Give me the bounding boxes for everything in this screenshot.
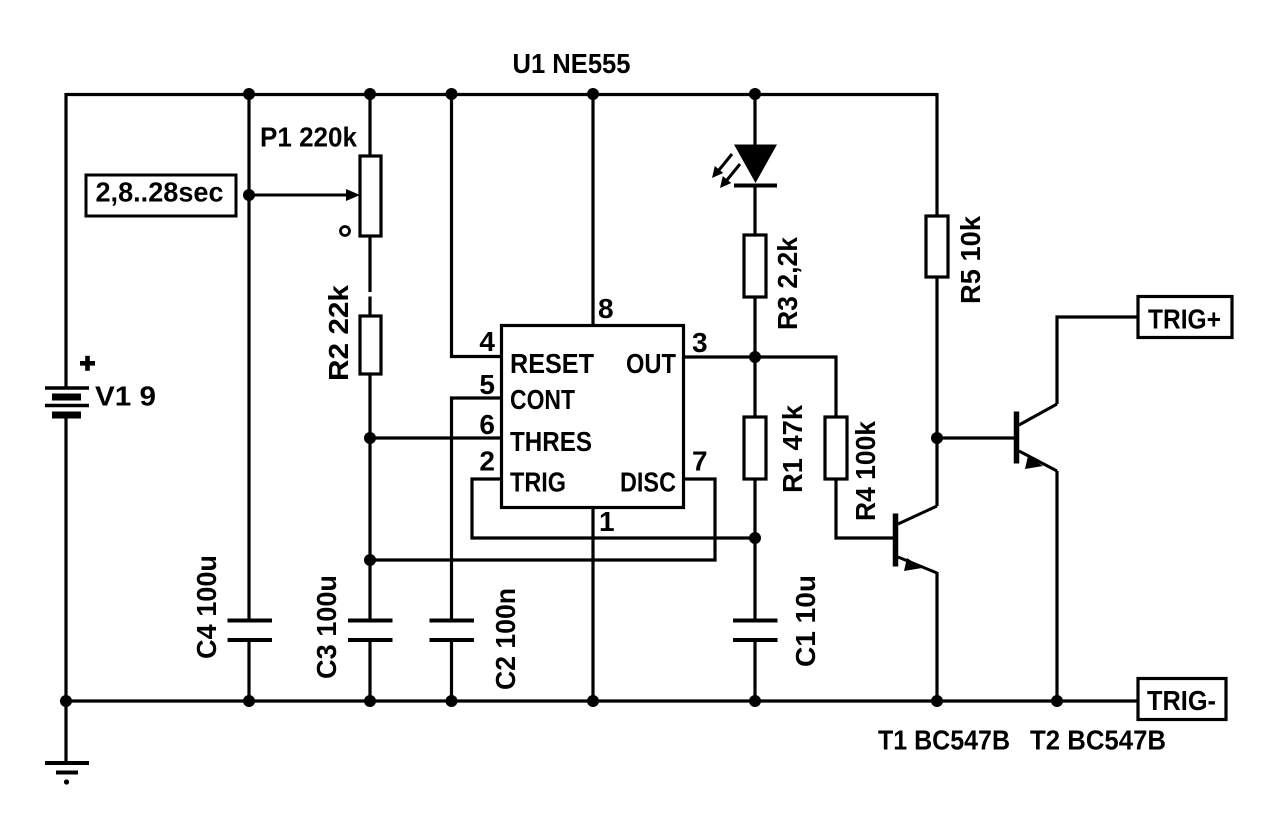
wire R5 top	[935, 93, 938, 216]
wire T2 collector to TRIG+	[1057, 317, 1138, 404]
wire bottom rail	[66, 699, 1138, 702]
wire T1 emitter to rail	[935, 572, 938, 701]
transistor T1	[896, 506, 938, 573]
svg-text:U1 NE555: U1 NE555	[513, 48, 631, 79]
svg-text:THRES: THRES	[510, 426, 592, 457]
port TRIG-	[1138, 679, 1226, 720]
transistor T2	[1017, 404, 1058, 471]
wire R4 to T1 base	[836, 479, 893, 538]
wire pin5 CONT to C2	[452, 398, 502, 620]
wire C4 to rail	[247, 641, 250, 701]
node bottom rail C4	[243, 695, 255, 707]
wire ground stem	[64, 701, 67, 762]
svg-text:TRIG-: TRIG-	[1147, 685, 1216, 716]
wire pin6 THRES	[370, 436, 501, 439]
node DISC junction	[364, 554, 376, 566]
callout box 2,8..28sec	[86, 175, 236, 216]
wire P1 bottom	[368, 236, 371, 292]
svg-text:3: 3	[692, 327, 708, 358]
node bottom rail C3	[364, 695, 376, 707]
node top rail at P1	[364, 88, 376, 100]
node TRIG junction	[749, 532, 761, 544]
node bottom rail T1	[931, 695, 943, 707]
wire OUT node to R1	[753, 357, 756, 417]
LED D1	[712, 145, 777, 189]
wire R1 to TRIG node	[753, 479, 756, 538]
node wiper tap	[243, 189, 255, 201]
capacitor C4	[228, 621, 273, 641]
svg-text:2,8..28sec: 2,8..28sec	[96, 177, 224, 208]
svg-text:8: 8	[598, 293, 614, 324]
svg-text:4: 4	[479, 326, 495, 357]
wire top rail	[66, 93, 937, 96]
wire pin1 to rail	[591, 508, 594, 701]
node THRES junction	[364, 432, 376, 444]
wire left rail upper	[64, 93, 67, 388]
resistor R4	[825, 417, 847, 479]
svg-text:P1 220k: P1 220k	[260, 122, 357, 153]
capacitor C1	[733, 621, 778, 641]
svg-text:C3 100u: C3 100u	[311, 575, 342, 679]
battery V1	[45, 388, 89, 415]
wire T2 base	[937, 436, 1014, 439]
wire C1 to rail	[753, 641, 756, 701]
node top rail at LED	[749, 88, 761, 100]
potentiometer P1	[249, 156, 381, 236]
wire pin4 RESET to rail	[452, 93, 502, 357]
resistor R3	[744, 235, 766, 297]
node T2 base junction	[931, 432, 943, 444]
wire LED cathode to R3	[753, 187, 756, 235]
svg-text:R1 47k: R1 47k	[777, 405, 808, 493]
wire pin3 OUT to R4	[684, 357, 836, 417]
svg-text:6: 6	[479, 409, 495, 440]
capacitor C3	[348, 621, 393, 641]
wire R2 top	[368, 297, 371, 317]
battery plus sign	[80, 356, 95, 371]
node bottom rail C1	[749, 695, 761, 707]
svg-text:T2 BC547B: T2 BC547B	[1030, 725, 1166, 756]
wire pin7 DISC loop	[370, 479, 715, 560]
svg-text:C1 10u: C1 10u	[790, 575, 821, 667]
svg-text:T1 BC547B: T1 BC547B	[878, 725, 1010, 756]
ground	[45, 763, 89, 785]
IC U1 NE555 box	[502, 326, 684, 508]
node top rail at RESET	[446, 88, 458, 100]
wire TRIG node to C1	[753, 538, 756, 620]
wire R2 bottom to C3	[368, 374, 371, 620]
svg-text:V1 9: V1 9	[95, 381, 156, 412]
svg-text:C4 100u: C4 100u	[191, 555, 222, 659]
wire R5 bottom to T1 collector	[935, 277, 938, 506]
svg-text:OUT: OUT	[626, 348, 676, 379]
svg-text:1: 1	[599, 506, 615, 537]
resistor R1	[744, 417, 766, 479]
svg-text:C2 100n: C2 100n	[490, 588, 521, 690]
node OUT junction	[749, 351, 761, 363]
wire LED anode	[753, 93, 756, 146]
resistor R5	[926, 216, 948, 277]
wire left rail lower	[64, 418, 67, 701]
svg-text:7: 7	[692, 446, 708, 477]
svg-text:R5 10k: R5 10k	[955, 216, 986, 304]
node top rail at C4	[243, 88, 255, 100]
node bottom rail C2	[446, 695, 458, 707]
node bottom rail pin1	[587, 695, 599, 707]
svg-text:TRIG+: TRIG+	[1148, 304, 1221, 335]
capacitor C2	[430, 621, 475, 641]
svg-text:5: 5	[479, 369, 495, 400]
node bottom rail T2	[1051, 695, 1063, 707]
wire R3 to OUT node	[753, 297, 756, 357]
resistor R2	[360, 316, 381, 374]
svg-text:R4 100k: R4 100k	[850, 421, 881, 521]
wire T2 emitter to rail	[1055, 471, 1058, 701]
port TRIG+	[1138, 297, 1232, 338]
svg-text:2: 2	[479, 446, 495, 477]
svg-text:R3 2,2k: R3 2,2k	[772, 237, 803, 330]
svg-text:R2 22k: R2 22k	[323, 285, 354, 381]
svg-text:DISC: DISC	[620, 467, 676, 498]
svg-text:RESET: RESET	[510, 348, 594, 379]
wire P1 top	[368, 93, 371, 156]
node top rail at pin8	[587, 88, 599, 100]
wire pin2 TRIG loop	[472, 479, 755, 538]
node bottom rail left	[60, 695, 72, 707]
svg-text:TRIG: TRIG	[510, 467, 566, 498]
wire pin8 to rail	[591, 93, 594, 325]
wire C2 to rail	[450, 641, 453, 701]
svg-text:CONT: CONT	[510, 384, 575, 415]
wire C3 to rail	[368, 641, 371, 701]
wire C4 column	[247, 93, 250, 620]
